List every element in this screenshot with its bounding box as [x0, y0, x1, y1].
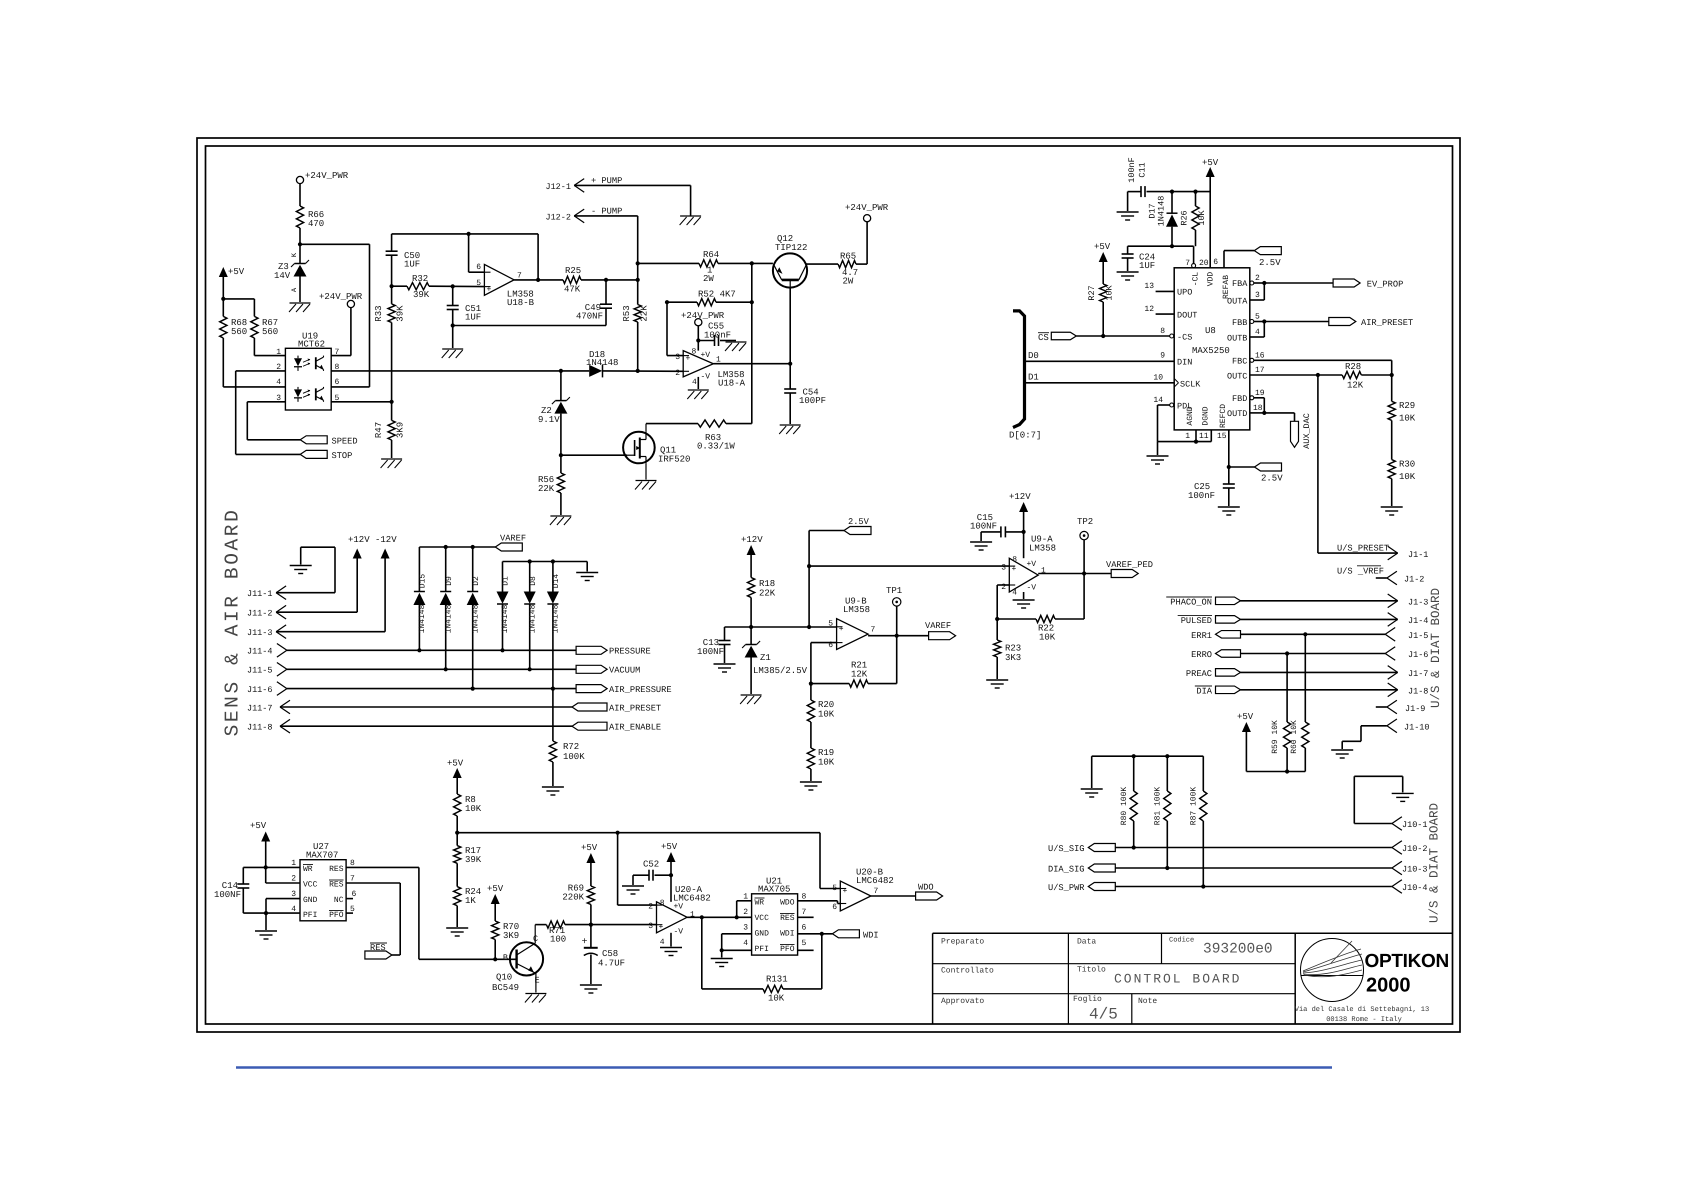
- svg-text:+5V: +5V: [447, 759, 464, 769]
- net flag STOP: [300, 450, 352, 461]
- ground J1-10: [1331, 750, 1353, 758]
- wire U18-A output to Q12 emitter column: [713, 362, 792, 366]
- wire VAREF rail: [419, 545, 495, 549]
- power +12V R18: [741, 535, 763, 578]
- svg-text:4: 4: [660, 938, 665, 947]
- connector J1-10: [1342, 719, 1429, 749]
- svg-text:PFO: PFO: [780, 945, 795, 954]
- svg-text:10K: 10K: [1039, 633, 1056, 643]
- svg-text:LM358: LM358: [1029, 544, 1056, 554]
- svg-text:WDI: WDI: [863, 931, 879, 941]
- svg-text:-V: -V: [674, 928, 684, 937]
- svg-text:3K9: 3K9: [503, 931, 519, 941]
- resistor R72: [549, 741, 585, 786]
- svg-text:1: 1: [276, 348, 281, 357]
- svg-text:100NF: 100NF: [970, 522, 997, 532]
- resistor R23: [994, 619, 1022, 679]
- zener Z3: [274, 252, 309, 302]
- svg-text:RES: RES: [370, 943, 386, 953]
- svg-text:VDD: VDD: [1207, 272, 1216, 287]
- wire R68 to pin4: [223, 338, 285, 387]
- svg-text:J11-2: J11-2: [247, 609, 273, 619]
- svg-text:J1-10: J1-10: [1404, 723, 1430, 733]
- svg-text:10K: 10K: [1399, 414, 1416, 424]
- resistor R27: [1087, 284, 1115, 338]
- diode D1 1N4148: [497, 562, 511, 651]
- svg-text:NC: NC: [334, 896, 344, 905]
- wire pin2 to STOP: [236, 371, 301, 455]
- power +5V U8: [1202, 158, 1219, 268]
- resistor R80: [1120, 756, 1137, 849]
- svg-text:PULSED: PULSED: [1181, 616, 1212, 626]
- power +5V R27: [1094, 242, 1111, 284]
- svg-text:J1-6: J1-6: [1408, 650, 1428, 660]
- svg-text:E: E: [535, 976, 540, 986]
- resistor R68: [220, 316, 248, 338]
- svg-text:7: 7: [871, 626, 876, 635]
- U8 right pin 17 OUTC: [1227, 366, 1342, 382]
- svg-text:J11-1: J11-1: [247, 589, 273, 599]
- svg-text:10K: 10K: [1105, 284, 1115, 300]
- svg-text:6: 6: [476, 263, 481, 272]
- svg-text:R30: R30: [1399, 460, 1415, 470]
- connector J12-1: [545, 176, 690, 216]
- zener Z2 9.1V: [538, 371, 570, 457]
- svg-text:4: 4: [1012, 589, 1017, 598]
- svg-text:2.5V: 2.5V: [1261, 474, 1283, 484]
- wire U9-B pin6 feedback: [809, 643, 837, 686]
- diode D15 1N4148: [413, 547, 427, 650]
- svg-text:FBA: FBA: [1232, 279, 1248, 289]
- svg-text:R23: R23: [1005, 644, 1021, 654]
- svg-text:7: 7: [350, 875, 355, 884]
- svg-text:+12V: +12V: [1009, 492, 1031, 502]
- net flag 2.5V top: [1254, 247, 1281, 268]
- svg-text:3: 3: [1255, 291, 1260, 300]
- svg-text:-12V: -12V: [375, 535, 397, 545]
- U8 right pin 2 FBA: [1232, 274, 1266, 300]
- svg-text:R131: R131: [766, 975, 788, 985]
- svg-text:8: 8: [1012, 556, 1017, 565]
- capacitor C24: [1122, 253, 1156, 272]
- net flag U/S_SIG: [1048, 841, 1428, 855]
- resistor R32: [392, 274, 485, 300]
- op-amp U9-A LM358: [1001, 535, 1056, 598]
- U8 right pin 4 OUTB: [1227, 328, 1264, 344]
- svg-text:2: 2: [276, 363, 281, 372]
- border frame outer: [197, 138, 1460, 1032]
- svg-text:12: 12: [1144, 305, 1154, 314]
- resistor R70: [492, 921, 520, 959]
- blue underline bar: [236, 1066, 1332, 1069]
- wire D0 to DIN: [1025, 351, 1175, 361]
- ground J10-1: [1392, 793, 1414, 801]
- svg-text:+V: +V: [674, 903, 684, 912]
- svg-text:2.5V: 2.5V: [1259, 258, 1281, 268]
- ground U8: [1147, 456, 1169, 464]
- svg-text:AIR_PRESET: AIR_PRESET: [1361, 318, 1413, 328]
- svg-text:AGND: AGND: [1186, 406, 1195, 425]
- net flag U/S_PWR: [1048, 880, 1428, 894]
- connector J10-1 with ground: [1354, 776, 1427, 830]
- svg-text:6: 6: [832, 903, 837, 912]
- svg-text:J11-3: J11-3: [247, 628, 273, 638]
- U8 right pin 19 FBD: [1232, 389, 1265, 413]
- wire pin5 to divider: [331, 400, 394, 404]
- resistor R26: [1180, 192, 1208, 247]
- OPTIKON 2000 logo: [1295, 939, 1449, 1025]
- svg-text:GND: GND: [755, 930, 770, 939]
- svg-text:R87 100K: R87 100K: [1190, 787, 1199, 826]
- power +5V pullups J1: [1237, 712, 1305, 772]
- ground U21: [711, 959, 733, 967]
- ground R30: [1381, 507, 1403, 515]
- svg-text:TP2: TP2: [1077, 517, 1093, 527]
- ground C58: [580, 985, 602, 993]
- diode D9 1N4148: [440, 547, 454, 669]
- svg-text:2: 2: [743, 908, 748, 917]
- svg-text:STOP: STOP: [332, 451, 353, 461]
- resistor R66: [296, 206, 324, 229]
- svg-text:220K: 220K: [562, 893, 584, 903]
- svg-text:LMC6482: LMC6482: [673, 893, 711, 903]
- svg-text:12K: 12K: [851, 670, 868, 680]
- net flag VAREF_PED: [1106, 560, 1153, 578]
- svg-text:J1-3: J1-3: [1408, 597, 1428, 607]
- svg-text:R20: R20: [818, 700, 834, 710]
- svg-text:4.7UF: 4.7UF: [598, 959, 625, 969]
- ground Z1: [740, 695, 762, 704]
- svg-text:R60 10K: R60 10K: [1290, 720, 1299, 754]
- svg-text:22K: 22K: [640, 305, 650, 322]
- wire +5V rail to U20-B pin5: [820, 888, 840, 890]
- svg-text:10K: 10K: [768, 994, 785, 1004]
- svg-text:C: C: [533, 934, 538, 944]
- svg-text:DIN: DIN: [1177, 358, 1192, 368]
- op-amp U18-A LM358: [675, 348, 745, 389]
- transistor Q11 IRF520: [561, 424, 691, 480]
- svg-text:+5V: +5V: [1237, 712, 1254, 722]
- net flag AIR_PRESET right: [1329, 318, 1413, 329]
- svg-text:1N4148: 1N4148: [444, 604, 453, 633]
- svg-text:Codice: Codice: [1169, 936, 1194, 945]
- svg-text:2: 2: [648, 903, 653, 912]
- svg-text:FBB: FBB: [1232, 318, 1247, 328]
- svg-text:2: 2: [675, 369, 680, 378]
- ground R19: [800, 782, 822, 790]
- power -12V J11-3: [247, 535, 397, 639]
- svg-text:560: 560: [262, 327, 278, 337]
- svg-text:OUTC: OUTC: [1227, 372, 1247, 382]
- svg-text:EV_PROP: EV_PROP: [1367, 280, 1404, 290]
- svg-text:14V: 14V: [274, 271, 291, 281]
- svg-text:4: 4: [276, 378, 281, 387]
- svg-text:J1-1: J1-1: [1408, 550, 1428, 560]
- svg-text:Foglio: Foglio: [1073, 995, 1102, 1004]
- svg-text:D2: D2: [472, 576, 481, 586]
- power +5V U20-A: [661, 842, 678, 902]
- U21 pin7 stub: [798, 916, 814, 918]
- wire second diode rail: [503, 559, 588, 571]
- capacitor C15: [970, 513, 1024, 541]
- resistor R29: [1388, 375, 1416, 424]
- svg-text:9: 9: [1160, 352, 1165, 361]
- junction dots ERR nets: [1285, 632, 1307, 655]
- wire R64 node to R63 column: [751, 263, 753, 423]
- connector J1-1: [1388, 546, 1429, 560]
- diode D14 1N4148: [547, 562, 561, 742]
- svg-text:+ PUMP: + PUMP: [591, 176, 622, 186]
- connector J11-5 VACUUM: [247, 663, 640, 677]
- svg-text:4: 4: [291, 905, 296, 914]
- svg-text:7: 7: [874, 887, 879, 896]
- resistor R24: [454, 887, 482, 927]
- op-amp U9-B LM358: [828, 597, 875, 651]
- op-amp U20-A LMC6482: [648, 885, 711, 947]
- svg-text:1N4148: 1N4148: [586, 358, 618, 368]
- svg-text:AIR_PRESET: AIR_PRESET: [609, 704, 661, 714]
- svg-text:9.1V: 9.1V: [538, 415, 560, 425]
- svg-text:PFI: PFI: [755, 945, 769, 954]
- svg-text:LM385/2.5V: LM385/2.5V: [753, 666, 808, 676]
- svg-text:4/5: 4/5: [1089, 1006, 1118, 1024]
- svg-text:+: +: [659, 923, 664, 932]
- svg-text:R29: R29: [1399, 401, 1415, 411]
- capacitor C52: [633, 860, 671, 886]
- svg-text:+: +: [487, 286, 492, 295]
- U8 right pin 5 FBB: [1232, 313, 1266, 338]
- net flag CS: [1038, 332, 1170, 343]
- wire U9-B output VAREF: [868, 635, 929, 637]
- svg-text:VCC: VCC: [303, 881, 318, 890]
- ground 100K rail: [1081, 789, 1103, 797]
- svg-text:12K: 12K: [1347, 381, 1364, 391]
- svg-text:WR: WR: [755, 899, 765, 908]
- resistor R8: [454, 794, 482, 846]
- svg-text:+12V: +12V: [741, 535, 763, 545]
- svg-text:PHACO_ON: PHACO_ON: [1170, 597, 1212, 607]
- svg-text:10K: 10K: [1399, 472, 1416, 482]
- resistor R28: [1342, 362, 1394, 391]
- U/S & DIAT BOARD side label upper: [1429, 588, 1443, 708]
- wire U27 pin4: [243, 911, 300, 915]
- ground C13: [714, 664, 736, 672]
- ground U9-A pin4: [1013, 592, 1035, 608]
- svg-text:J1-5: J1-5: [1408, 631, 1428, 641]
- wire +5V rail to U20 area: [457, 831, 820, 889]
- svg-text:47K: 47K: [564, 285, 581, 295]
- net flag RES: [365, 943, 392, 959]
- svg-text:PFI: PFI: [303, 911, 317, 920]
- connector J11-8 AIR_ENABLE: [247, 719, 661, 733]
- U/S & DIAT BOARD side label lower: [1428, 803, 1442, 923]
- net flag 2.5V mid: [807, 517, 871, 627]
- svg-text:FBD: FBD: [1232, 394, 1247, 404]
- net flag EV_PROP: [1333, 279, 1403, 290]
- svg-text:6: 6: [335, 378, 340, 387]
- resistor R64: [638, 250, 773, 284]
- title block grid: [933, 933, 1453, 1024]
- capacitor C11: [1127, 157, 1210, 211]
- svg-text:U/S _VREF: U/S _VREF: [1337, 567, 1384, 577]
- svg-text:100nF: 100nF: [1188, 491, 1215, 501]
- connector J1-6: [1191, 647, 1428, 661]
- svg-text:1K: 1K: [465, 896, 476, 906]
- wire U20-A pin2: [618, 833, 657, 905]
- power +5V opto: [219, 267, 245, 316]
- svg-text:1N4148: 1N4148: [471, 604, 480, 633]
- svg-text:D8: D8: [529, 576, 538, 586]
- diode D2 1N4148: [467, 547, 481, 689]
- resistor R67: [251, 316, 278, 338]
- ground below C51: [442, 349, 464, 358]
- svg-text:C11: C11: [1138, 162, 1148, 177]
- svg-text:15: 15: [1217, 432, 1227, 441]
- svg-text:DIA: DIA: [1196, 686, 1212, 696]
- svg-text:BC549: BC549: [492, 983, 519, 993]
- wire pin6 stub: [331, 386, 369, 388]
- diode D8 1N4148: [524, 562, 538, 670]
- resistor R81: [1154, 756, 1171, 870]
- svg-text:2W: 2W: [843, 277, 854, 287]
- svg-text:1UF: 1UF: [1139, 261, 1155, 271]
- svg-text:+: +: [1012, 565, 1017, 574]
- wire U27 pin2: [266, 882, 300, 884]
- power +5V U27: [250, 821, 270, 883]
- svg-text:U8: U8: [1205, 326, 1216, 336]
- svg-text:J10-2: J10-2: [1402, 844, 1428, 854]
- connector J11-7 AIR_PRESET: [247, 700, 661, 714]
- resistor R65: [807, 252, 868, 287]
- svg-text:- PUMP: - PUMP: [591, 207, 622, 217]
- svg-text:D14: D14: [552, 574, 561, 589]
- wire WDI net: [798, 932, 833, 989]
- svg-text:J11-7: J11-7: [247, 704, 273, 714]
- ground C55: [725, 342, 747, 351]
- wire pin8 long to D18: [331, 369, 640, 373]
- svg-text:DGND: DGND: [1202, 406, 1211, 425]
- resistor R25: [563, 266, 640, 295]
- ground R23: [986, 680, 1008, 688]
- svg-text:CONTROL BOARD: CONTROL BOARD: [1114, 972, 1241, 987]
- svg-text:J11-4: J11-4: [247, 647, 273, 657]
- svg-text:1N4148: 1N4148: [528, 604, 537, 633]
- svg-text:DOUT: DOUT: [1177, 311, 1197, 321]
- svg-text:10K: 10K: [818, 758, 835, 768]
- svg-text:LM358: LM358: [843, 605, 870, 615]
- svg-text:1N4148: 1N4148: [552, 604, 561, 633]
- net flag WDO: [916, 883, 943, 901]
- svg-text:1N4148: 1N4148: [418, 604, 427, 633]
- capacitor C25: [1188, 467, 1235, 506]
- connector J1-8: [1195, 683, 1429, 697]
- svg-text:100: 100: [550, 935, 566, 945]
- svg-text:3: 3: [1001, 564, 1006, 573]
- resistor R69: [562, 884, 594, 925]
- svg-text:C58: C58: [602, 949, 618, 959]
- svg-text:J11-6: J11-6: [247, 685, 273, 695]
- svg-text:OPTIKON: OPTIKON: [1365, 951, 1449, 972]
- svg-text:R33: R33: [374, 305, 384, 321]
- svg-text:13: 13: [1144, 282, 1154, 291]
- svg-text:U18-B: U18-B: [507, 298, 535, 308]
- svg-text:R64: R64: [703, 250, 719, 260]
- svg-text:+24V_PWR: +24V_PWR: [681, 311, 725, 321]
- title block labels: [941, 936, 1273, 1024]
- svg-text:16: 16: [1255, 352, 1265, 361]
- connector J1-4: [1178, 613, 1429, 627]
- wire R66 to Z3 node: [298, 228, 302, 264]
- svg-text:R28: R28: [1345, 362, 1361, 372]
- svg-text:J1-4: J1-4: [1408, 616, 1428, 626]
- resistor R59: [1271, 654, 1291, 774]
- svg-text:IRF520: IRF520: [658, 455, 690, 465]
- net flag WDI: [832, 930, 878, 941]
- connector J12-2: [545, 207, 639, 280]
- svg-text:10K: 10K: [1197, 209, 1207, 225]
- resistor R52: [665, 290, 754, 356]
- svg-text:+: +: [839, 625, 844, 634]
- wire U27 pin3 gnd: [266, 899, 300, 930]
- svg-text:REFAB: REFAB: [1222, 275, 1231, 299]
- svg-text:10: 10: [1153, 374, 1163, 383]
- svg-text:MAX705: MAX705: [758, 885, 790, 895]
- net flag VAREF top: [495, 534, 526, 552]
- resistor R131: [702, 917, 822, 1003]
- ground J11-1: [290, 566, 312, 574]
- U8 top pin 7 -CL: [1185, 259, 1200, 286]
- SENS & AIR BOARD side label: [222, 508, 244, 737]
- svg-text:Titolo: Titolo: [1077, 966, 1106, 975]
- svg-text:+5V: +5V: [1202, 158, 1219, 168]
- svg-text:MAX5250: MAX5250: [1192, 346, 1230, 356]
- svg-text:R26: R26: [1180, 210, 1190, 225]
- ground below Z3: [289, 303, 311, 312]
- ground C52: [622, 886, 644, 894]
- svg-text:J11-8: J11-8: [247, 723, 273, 733]
- svg-text:U/S_SIG: U/S_SIG: [1048, 844, 1085, 854]
- svg-text:39K: 39K: [465, 855, 482, 865]
- svg-text:1N4148: 1N4148: [501, 604, 510, 633]
- resistor R53: [622, 280, 650, 371]
- diode D18 1N4148: [586, 350, 683, 377]
- svg-text:5: 5: [1255, 313, 1260, 322]
- resistor R87: [1190, 756, 1207, 888]
- svg-text:7: 7: [1185, 259, 1190, 268]
- svg-text:1N4148: 1N4148: [1157, 196, 1167, 227]
- power +24V_PWR U18-A: [681, 311, 725, 351]
- svg-text:-CL: -CL: [1192, 272, 1201, 287]
- net flag AUX_DAC: [1291, 413, 1313, 449]
- data bus D[0:7]: [1009, 311, 1041, 441]
- svg-text:J1-7: J1-7: [1408, 669, 1428, 679]
- svg-text:1: 1: [291, 859, 296, 868]
- wire 2.5V reference node: [725, 625, 837, 629]
- svg-text:1: 1: [743, 893, 748, 902]
- svg-text:+: +: [582, 937, 588, 948]
- svg-text:B: B: [503, 953, 508, 963]
- svg-text:VACUUM: VACUUM: [609, 666, 640, 676]
- svg-text:1: 1: [1185, 432, 1190, 441]
- svg-text:18: 18: [1253, 404, 1263, 413]
- svg-text:2W: 2W: [703, 274, 714, 284]
- ground Q11 source: [635, 481, 657, 490]
- svg-text:1UF: 1UF: [465, 313, 481, 323]
- resistor R33: [374, 304, 406, 421]
- svg-text:J11-5: J11-5: [247, 666, 273, 676]
- diode D17 1N4148: [1148, 192, 1179, 247]
- U8 left pin 8 -CS: [1160, 327, 1192, 343]
